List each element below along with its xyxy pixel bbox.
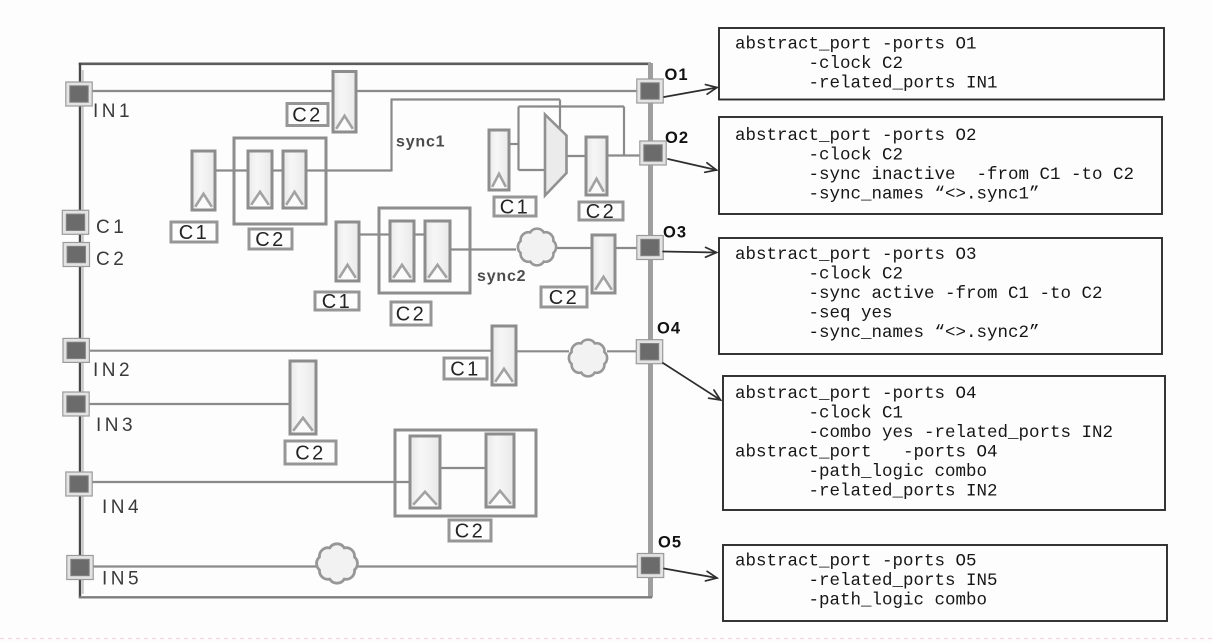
svg-text:O1: O1 xyxy=(665,66,689,84)
arrow O3 to command box 3 xyxy=(663,247,717,257)
svg-text:-clock C1: -clock C1 xyxy=(809,403,904,423)
wire O2 feedback top xyxy=(519,105,625,107)
wire sync1 2FF box internal xyxy=(271,169,284,171)
svg-text:-clock C2: -clock C2 xyxy=(809,264,904,284)
svg-text:-related_ports IN5: -related_ports IN5 xyxy=(809,571,998,591)
scan artifact dotted line at page bottom xyxy=(0,638,1213,640)
svg-text:abstract_port -ports O3: abstract_port -ports O3 xyxy=(735,245,977,265)
clock label C1 for FF2 xyxy=(171,222,217,244)
svg-text:O3: O3 xyxy=(663,224,687,242)
svg-text:C1: C1 xyxy=(96,217,127,238)
wire O4 cloud to port O4 xyxy=(607,350,649,352)
command box for O4 xyxy=(723,376,1165,510)
arrow O5 to command box 5 xyxy=(664,569,717,581)
port O2 xyxy=(640,141,666,165)
flip-flop FF5 O2 path (clock C1) xyxy=(489,130,509,190)
svg-text:abstract_port -ports O1: abstract_port -ports O1 xyxy=(735,34,977,54)
wire sync2 2FF box internal xyxy=(413,233,426,235)
module boundary left edge xyxy=(80,63,83,598)
clock label C2 for IN4 box xyxy=(449,520,491,543)
command box for O5 xyxy=(723,545,1167,621)
command box for O3 xyxy=(719,238,1162,354)
IN4 2-FF box xyxy=(395,430,536,516)
port IN5 xyxy=(67,556,93,580)
svg-text:-related_ports IN1: -related_ports IN1 xyxy=(809,73,998,93)
sync1 2-FF synchronizer box xyxy=(234,138,326,224)
wire O2 feedback right vertical xyxy=(623,107,625,156)
module boundary bottom edge xyxy=(79,596,652,598)
wire IN1 to O1 xyxy=(80,90,649,92)
svg-text:C2: C2 xyxy=(295,443,326,465)
svg-text:O2: O2 xyxy=(665,129,689,147)
command box for O1 xyxy=(719,28,1164,100)
svg-text:IN2: IN2 xyxy=(93,360,133,381)
wire FF11 to O4 cloud xyxy=(515,350,569,352)
port IN1 xyxy=(66,82,92,106)
wire IN5 to O5 xyxy=(81,565,649,567)
svg-text:-clock C2: -clock C2 xyxy=(809,145,904,165)
arrow O2 to command box 2 xyxy=(668,159,717,172)
flip-flop FF2 sync1 input stage (clock C1) xyxy=(192,151,215,210)
clock label C2 for FF1 xyxy=(287,104,328,127)
port O5 xyxy=(637,554,663,578)
svg-text:C1: C1 xyxy=(450,359,481,381)
flip-flop FF12 IN3 path (clock C2) xyxy=(290,361,316,434)
svg-text:C1: C1 xyxy=(322,291,353,313)
clock label C1 for FF5 xyxy=(494,197,536,219)
wire sync1 2FF box output to vertical xyxy=(305,169,392,171)
clock label C1 for FF11 xyxy=(444,358,487,381)
module boundary right edge xyxy=(648,63,653,598)
flip-flop FF10 O3 path (clock C2) xyxy=(592,235,615,293)
clock label C2 for FF6 xyxy=(579,201,623,223)
mux U1 (O2 recirculation mux) xyxy=(545,115,567,196)
wire O2 feedback left vertical xyxy=(517,107,519,171)
wire IN2 to FF11 xyxy=(81,350,493,352)
svg-text:C1: C1 xyxy=(179,222,210,244)
port O4 xyxy=(636,340,662,364)
wire sync2 cloud to FF10 xyxy=(557,247,593,249)
flip-flop FF6 O2 path (clock C2) xyxy=(586,137,607,195)
port IN3 xyxy=(63,392,89,416)
flip-flop FF9 sync2 box stage 2 xyxy=(425,221,450,281)
wire IN3 to FF12 xyxy=(81,403,291,405)
cloud O4 combinational logic (combinational logic) xyxy=(569,340,607,377)
wire FF5 output to mux xyxy=(509,143,520,145)
port IN2 xyxy=(63,338,89,362)
flip-flop FF14 IN4 box stage 2 xyxy=(486,434,514,507)
wire FF6 output to O2 xyxy=(606,154,650,156)
svg-text:C2: C2 xyxy=(396,304,427,326)
arrow O4 to command box 4 xyxy=(663,363,721,400)
flip-flop FF8 sync2 box stage 1 xyxy=(390,221,414,281)
clock label C2 for FF10 xyxy=(541,287,587,309)
clock label C2 for sync2 box xyxy=(391,302,431,326)
svg-text:C2: C2 xyxy=(549,287,580,309)
svg-text:IN5: IN5 xyxy=(102,569,142,590)
flip-flop FF13 IN4 box stage 1 xyxy=(410,436,440,508)
wire sync1 select vertical xyxy=(390,100,392,172)
svg-text:O4: O4 xyxy=(657,320,681,338)
svg-text:-path_logic combo: -path_logic combo xyxy=(809,462,988,482)
clock label C2 for sync1 box xyxy=(249,229,292,251)
svg-text:-sync_names “<>.sync1”: -sync_names “<>.sync1” xyxy=(809,184,1040,204)
sync2 2-FF synchronizer box xyxy=(379,208,470,293)
port O3 xyxy=(637,236,663,260)
svg-text:-combo yes -related_ports IN2: -combo yes -related_ports IN2 xyxy=(809,423,1114,443)
svg-text:IN1: IN1 xyxy=(93,101,133,122)
svg-text:C2: C2 xyxy=(255,229,286,251)
svg-text:C1: C1 xyxy=(500,197,531,219)
wire sync1 select top horizontal xyxy=(391,98,561,100)
svg-text:abstract_port -ports O4: abstract_port -ports O4 xyxy=(735,384,977,404)
wire sync1 chain input to 2FF box xyxy=(214,169,249,171)
wire sync2 chain input xyxy=(358,233,391,235)
svg-text:abstract_port -ports O5: abstract_port -ports O5 xyxy=(735,552,977,572)
svg-text:C2: C2 xyxy=(96,249,127,270)
cloud sync2 combinational logic (combinational logic) xyxy=(518,229,556,266)
arrow O1 to command box 1 xyxy=(664,85,717,97)
svg-text:C2: C2 xyxy=(292,105,323,127)
svg-text:sync2: sync2 xyxy=(477,268,526,285)
svg-text:IN3: IN3 xyxy=(96,415,136,436)
flip-flop FF7 sync2 input stage (clock C1) xyxy=(336,222,359,281)
svg-text:-related_ports IN2: -related_ports IN2 xyxy=(809,481,998,501)
wire FF10 output to O3 xyxy=(614,247,649,249)
flip-flop FF1 on IN1 wire (clock C2) xyxy=(333,72,356,133)
port IN4 xyxy=(66,472,92,496)
port O1 xyxy=(637,79,663,103)
port C1 xyxy=(62,210,88,234)
command box for O2 xyxy=(719,117,1162,214)
cloud IN5 combinational logic (combinational logic) xyxy=(317,544,358,583)
flip-flop FF11 IN2/O4 path (clock C1) xyxy=(492,326,516,385)
clock label C1 for FF7 xyxy=(315,291,359,313)
svg-text:-sync active -from C1 -to C2: -sync active -from C1 -to C2 xyxy=(809,284,1103,304)
svg-text:sync1: sync1 xyxy=(396,134,445,151)
svg-text:-sync inactive -from C1 -to C: -sync inactive -from C1 -to C2 xyxy=(809,165,1135,185)
wire IN4 to FF13 xyxy=(81,481,411,483)
svg-text:-path_logic combo: -path_logic combo xyxy=(809,591,988,611)
wire sync2 2FF box output xyxy=(449,248,516,250)
wire sync1 select into mux xyxy=(559,100,561,129)
wire mux output to FF6 xyxy=(566,155,587,157)
flip-flop FF3 sync1 box stage 1 xyxy=(248,151,272,208)
wire FF13 to FF14 xyxy=(439,467,487,469)
svg-text:O5: O5 xyxy=(658,534,682,552)
svg-text:-clock C2: -clock C2 xyxy=(809,54,904,74)
svg-text:abstract_port -ports O2: abstract_port -ports O2 xyxy=(735,126,977,146)
wire mux lower input xyxy=(519,169,547,171)
svg-text:abstract_port -ports O4: abstract_port -ports O4 xyxy=(735,442,998,462)
clock label C2 for FF12 xyxy=(285,441,336,465)
module boundary top edge xyxy=(79,62,651,65)
svg-text:C2: C2 xyxy=(586,201,617,223)
svg-text:-sync_names “<>.sync2”: -sync_names “<>.sync2” xyxy=(809,323,1040,343)
port C2 xyxy=(63,243,89,267)
svg-text:IN4: IN4 xyxy=(102,497,142,518)
flip-flop FF4 sync1 box stage 2 xyxy=(283,151,306,208)
svg-text:-seq yes: -seq yes xyxy=(809,303,893,323)
svg-text:C2: C2 xyxy=(455,521,486,543)
